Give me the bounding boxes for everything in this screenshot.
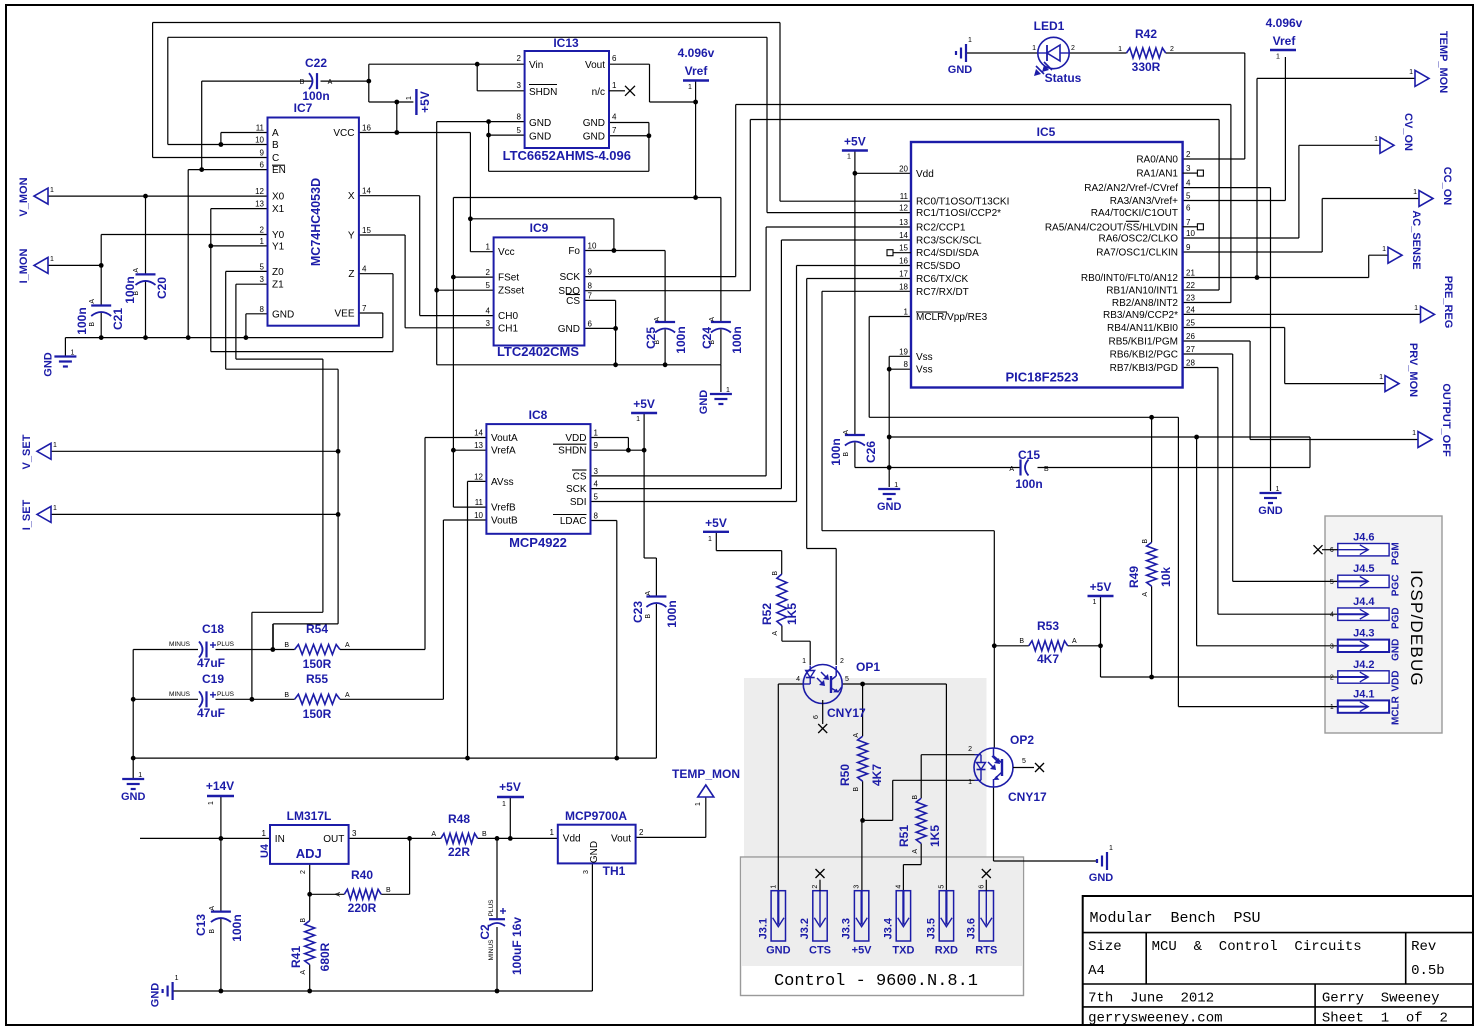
svg-text:20: 20 [899,164,908,173]
connector J3.6 RTS [965,869,997,957]
junction [1098,643,1103,648]
svg-text:PIC18F2523: PIC18F2523 [1006,370,1079,385]
resistor R54 [284,622,350,671]
LED LED1 Status [1032,19,1082,85]
svg-text:MINUS: MINUS [488,939,495,961]
svg-text:1: 1 [406,96,413,100]
svg-text:100n: 100n [674,326,688,353]
ground (left rail) [42,350,76,377]
junction [860,818,865,823]
wire to C21 [100,265,102,305]
junction [307,989,312,994]
svg-text:GND: GND [583,132,605,143]
connector J4.5 PGC [1330,563,1401,596]
svg-text:47uF: 47uF [197,656,225,670]
svg-text:OP1: OP1 [856,660,880,674]
svg-text:B: B [284,692,289,699]
wire R50 bottom [862,781,864,820]
svg-text:B: B [912,795,919,800]
wire +5V to IC9 [469,133,471,252]
wire R50 top [862,684,864,736]
svg-text:R54: R54 [306,622,328,636]
svg-text:VDD: VDD [565,433,586,444]
svg-text:47uF: 47uF [197,706,225,720]
svg-text:C21: C21 [111,308,125,330]
svg-text:J3.6: J3.6 [965,918,977,939]
svg-text:+5V: +5V [418,91,432,113]
resistor R50 [838,733,884,792]
svg-text:C: C [272,153,279,164]
wire PIC Vss19 [889,355,911,357]
wire Vss to gnd [888,369,890,487]
wire TH1 GND pin [591,863,593,991]
svg-text:330R: 330R [1132,60,1161,74]
junction [131,756,136,761]
svg-text:7: 7 [362,304,367,313]
svg-text:PRE_REG: PRE_REG [1442,276,1454,329]
svg-text:5: 5 [517,126,522,135]
svg-text:6: 6 [588,319,593,328]
svg-text:1: 1 [1118,46,1122,53]
svg-text:C18: C18 [202,622,224,636]
svg-text:12: 12 [474,472,483,481]
wire agnd rail [133,757,656,759]
wire gnd rail [65,337,382,339]
svg-text:24: 24 [1186,305,1195,314]
power +5V (PIC) [842,135,868,161]
svg-text:VCC: VCC [333,128,354,139]
svg-text:LM317L: LM317L [287,809,332,823]
svg-text:Vout: Vout [611,834,631,845]
svg-text:V_SET: V_SET [21,434,33,469]
svg-text:J3.5: J3.5 [925,918,937,939]
wire [322,359,324,612]
wire [251,612,253,699]
wire R52 top [781,551,783,574]
wire net RC0 top [153,22,780,24]
resistor R51 [897,795,942,854]
port TEMP_MON (bottom) [672,767,740,806]
svg-text:TXD: TXD [892,945,914,957]
junction [486,119,491,124]
svg-text:SHDN: SHDN [558,446,586,457]
connector J4.3 GND [1330,628,1401,661]
svg-text:3: 3 [486,319,491,328]
wire [716,550,781,552]
svg-text:C19: C19 [202,672,224,686]
junction [612,248,617,253]
wire +5V / C26 [854,151,856,436]
svg-text:J4.5: J4.5 [1353,563,1374,575]
svg-text:TEMP_MON: TEMP_MON [672,767,740,781]
svg-text:Vdd: Vdd [916,169,934,180]
svg-text:R50: R50 [838,764,852,786]
wire EN to gnd rail [187,170,189,338]
svg-text:PGC: PGC [1390,575,1401,597]
svg-text:2: 2 [300,870,307,874]
svg-text:gerrysweeney.com: gerrysweeney.com [1088,1011,1222,1027]
svg-text:C23: C23 [631,601,645,623]
wire [235,284,237,359]
svg-text:4.096v: 4.096v [678,46,715,60]
connector J3.1 GND [757,885,790,957]
svg-text:B: B [386,887,391,894]
svg-text:100n: 100n [230,914,244,941]
wire IC7 pin A [221,132,268,134]
wire IC13 gnd to rail [436,122,438,365]
wire IC8 SCK to RC3 [591,488,782,490]
svg-text:14: 14 [474,429,483,438]
svg-text:2: 2 [260,226,265,235]
svg-text:2: 2 [486,268,491,277]
wire +5V pin [369,101,414,103]
junction [394,130,399,135]
wire PIC Vss8 [889,368,911,370]
wire C13 down [220,919,222,991]
wire [152,23,154,158]
svg-text:RC5/SDO: RC5/SDO [916,261,961,272]
svg-text:RA6/OSC2/CLKO: RA6/OSC2/CLKO [1099,234,1179,245]
svg-text:1: 1 [208,801,215,805]
svg-text:B: B [772,571,779,576]
wire R55 A [340,698,443,700]
svg-text:3: 3 [854,885,861,889]
wire OP2 collector [993,531,995,748]
wire Vref row [453,197,721,199]
svg-text:V_MON: V_MON [18,177,30,216]
junction [642,448,647,453]
svg-text:MCP4922: MCP4922 [509,535,567,550]
svg-text:Vss: Vss [916,365,933,376]
wire IC9 FSet [453,276,493,278]
wire [201,81,203,170]
wire to C13 [220,838,222,911]
svg-text:RB6/KBI2/PGC: RB6/KBI2/PGC [1110,350,1178,361]
wire RA3 pin [1183,200,1286,202]
svg-text:C2: C2 [478,924,492,940]
svg-text:CV_ON: CV_ON [1402,113,1414,151]
connector J3.3 +5V [841,885,873,957]
IC IC7 MC74HC4053D [255,101,371,326]
svg-text:+5V: +5V [1090,580,1112,594]
svg-text:+5V: +5V [852,945,873,957]
wire I_MON [48,264,101,266]
optocoupler OP2 CNY17 [968,733,1047,804]
junction [336,512,341,517]
svg-text:7: 7 [612,126,617,135]
junction [131,697,136,702]
svg-text:Y: Y [348,231,355,242]
svg-text:RA2/AN2/Vref-/CVref: RA2/AN2/Vref-/CVref [1084,183,1178,194]
svg-text:6: 6 [1330,547,1334,554]
wire RA0 pin [1183,158,1245,160]
wire [272,624,274,650]
junction [199,167,204,172]
wire J4.2 pin [1101,676,1338,678]
ground (PIC Vss) [877,482,902,513]
wire [1284,328,1286,384]
wire IC13 Vin [369,63,525,65]
svg-text:OUT: OUT [323,834,344,845]
svg-text:CH0: CH0 [498,311,518,322]
wire IC9 SCK [584,276,735,278]
wire [225,271,227,369]
svg-text:RA5/AN4/C2OUT/SS/HLVDIN: RA5/AN4/C2OUT/SS/HLVDIN [1045,222,1178,233]
svg-text:5: 5 [1186,192,1191,201]
svg-text:25: 25 [1186,319,1195,328]
svg-text:1: 1 [138,772,142,779]
wire OUTPUT_OFF [1250,439,1418,441]
svg-text:PLUS: PLUS [217,641,235,648]
wire V_SET [51,450,338,452]
svg-text:A: A [772,631,779,636]
svg-text:A: A [654,317,661,322]
svg-text:9: 9 [260,149,265,158]
junction [307,892,312,897]
wire [100,235,102,266]
svg-text:13: 13 [474,441,483,450]
svg-text:8: 8 [517,113,522,122]
wire [855,467,889,469]
connector J3.4 TXD [882,885,914,957]
svg-text:5: 5 [260,262,265,271]
svg-text:OP2: OP2 [1010,733,1034,747]
wire net RC1 top [168,36,767,38]
svg-text:RA4/T0CKI/C1OUT: RA4/T0CKI/C1OUT [1091,208,1178,219]
wire [226,368,338,370]
junction [99,335,104,340]
svg-text:GND: GND [1258,505,1283,517]
svg-text:2: 2 [1186,150,1191,159]
svg-text:R51: R51 [897,825,911,847]
title block [1083,896,1473,1025]
wire [766,37,768,212]
svg-text:A: A [300,970,307,975]
svg-text:+5V: +5V [844,135,866,149]
wire LM317 IN [140,837,270,839]
svg-text:J4.6: J4.6 [1353,532,1374,544]
wire gnd rail2 [437,364,721,366]
wire to C25 [664,251,666,323]
wire RA3 to Vref [1284,57,1286,201]
wire IC8 LDAC [591,520,617,522]
wire MCLR to ICSP [869,416,1178,418]
svg-text:4: 4 [486,307,491,316]
wire RC6 pin [807,278,911,280]
svg-text:1: 1 [847,154,851,161]
svg-text:X1: X1 [272,204,285,215]
svg-text:CH1: CH1 [498,323,518,334]
wire PRE_REG [1183,313,1421,315]
junction [219,989,224,994]
wire IC7 Y out [359,234,405,236]
wire IC8 VrefA [453,449,486,451]
junction [1255,275,1260,280]
ground (OP2 emitter) [1089,845,1114,884]
wire R51 top [920,755,922,799]
wire IC7 Z1 [236,283,268,285]
svg-text:1: 1 [904,308,909,317]
capacitor C15 [1009,448,1049,491]
wire CV_ON [1299,144,1380,146]
wire RB0 pin [1183,277,1369,279]
wire gnd to LED [967,52,1038,54]
svg-text:IN: IN [275,834,285,845]
svg-text:A: A [335,892,342,897]
wire [396,102,398,133]
svg-text:1: 1 [50,256,54,263]
svg-text:B: B [89,322,96,327]
power Vref 4.096v (right) [1266,16,1303,61]
svg-text:SCK: SCK [559,272,580,283]
junction [270,647,275,652]
wire [796,266,798,502]
svg-text:I_SET: I_SET [21,499,33,530]
wire C26 down [854,443,856,468]
svg-text:1: 1 [802,658,806,665]
svg-text:1: 1 [550,828,555,837]
svg-text:GND: GND [121,791,146,803]
svg-text:27: 27 [1186,345,1195,354]
port I_SET [21,499,57,530]
wire [720,365,722,392]
junction [693,195,698,200]
wire [616,521,618,759]
wire OP2 pin2 [921,754,974,756]
wire OP1 pin5 [843,683,947,685]
svg-text:B: B [284,642,289,649]
svg-text:B: B [482,831,487,838]
junction [99,263,104,268]
wire RB6 pin [1183,353,1233,355]
svg-text:GND: GND [877,501,902,513]
connector J4.6 PGM [1330,532,1401,566]
wire R49 top [1151,417,1153,542]
sensor TH1 MCP9700A [550,809,644,878]
wire LED to R42 [1069,52,1126,54]
svg-text:Z0: Z0 [272,267,284,278]
svg-text:IC7: IC7 [294,101,313,115]
wire [488,122,490,172]
svg-text:RB2/AN8/INT2: RB2/AN8/INT2 [1112,298,1179,309]
wire IC9 CS [584,299,615,301]
connector J3.5 RXD [925,885,958,957]
wire +5V2 pin [715,532,717,551]
wire C18 minus [133,649,198,651]
connector J4.2 VDD [1330,659,1401,692]
wire IC13 GND7 [609,135,649,137]
svg-text:B: B [843,452,850,457]
wire [765,227,767,476]
wire R52 bottom [781,626,783,642]
svg-text:CS: CS [573,471,587,482]
svg-text:B: B [1044,466,1049,473]
svg-text:5: 5 [845,676,849,683]
junction [394,100,399,105]
svg-text:1: 1 [636,416,640,423]
svg-text:RA0/AN0: RA0/AN0 [1136,155,1178,166]
svg-text:J4.4: J4.4 [1353,596,1375,608]
wire [1232,354,1234,581]
port PRV_MON [1379,343,1419,397]
svg-text:A4: A4 [1088,963,1105,979]
svg-text:3: 3 [517,81,522,90]
svg-text:15: 15 [362,226,371,235]
svg-text:Size: Size [1088,939,1122,955]
wire IC9 CH0 [420,315,494,317]
svg-text:1: 1 [260,237,265,246]
svg-text:VoutB: VoutB [491,516,518,527]
svg-text:GND: GND [948,64,973,76]
svg-text:3: 3 [1330,643,1334,650]
svg-text:A: A [89,299,96,304]
wire [648,123,650,136]
junction [451,448,456,453]
wire PIC Vdd [855,172,911,174]
svg-text:n/c: n/c [592,87,605,98]
wire IC9 Fo [584,250,665,252]
junction [250,697,255,702]
svg-text:A: A [912,849,919,854]
wire IC13 SHDN [477,90,524,92]
svg-text:Z: Z [348,269,354,280]
svg-text:100n: 100n [730,326,744,353]
svg-text:RC6/TX/CK: RC6/TX/CK [916,274,969,285]
svg-text:4: 4 [594,480,599,489]
svg-text:A: A [853,733,860,738]
wire OP1 pin1 [809,641,811,665]
svg-text:RB4/AN11/KBI0: RB4/AN11/KBI0 [1107,323,1178,334]
capacitor C26 [829,430,878,466]
wire OP2 pin1 [893,779,975,781]
resistor R41 [289,918,332,975]
wire IC8 VoutA [425,437,486,439]
svg-text:1: 1 [53,505,57,512]
capacitor C22 [300,56,333,103]
wire IC7 GND pin [246,313,268,315]
wire to J3.1 [777,684,779,891]
svg-text:IC13: IC13 [553,36,579,50]
wire [1218,120,1220,291]
svg-text:8: 8 [594,512,599,521]
svg-text:1: 1 [1413,189,1417,196]
svg-text:4: 4 [895,885,902,889]
svg-text:Y0: Y0 [272,230,285,241]
wire RC1 pin [767,212,911,214]
svg-text:1: 1 [175,975,179,982]
wire [424,438,426,650]
wire [1249,341,1251,440]
svg-text:B: B [853,787,860,792]
svg-text:9: 9 [1186,243,1191,252]
svg-text:220R: 220R [348,901,377,915]
resistor R52 [760,571,799,636]
svg-text:R48: R48 [448,812,470,826]
svg-text:8: 8 [588,282,593,291]
wire [782,640,810,642]
svg-text:RC2/CCP1: RC2/CCP1 [916,223,966,234]
svg-text:6: 6 [813,715,820,719]
svg-text:A: A [843,430,850,435]
wire SCK to RB2 [736,104,1231,106]
junction [1149,415,1154,420]
wire R40 A [310,893,345,895]
no-connect RA5 [1183,224,1204,230]
wire R40 B [381,893,409,895]
svg-text:B: B [300,918,307,923]
junction [495,989,500,994]
svg-text:RB3/AN9/CCP2*: RB3/AN9/CCP2* [1103,310,1178,321]
